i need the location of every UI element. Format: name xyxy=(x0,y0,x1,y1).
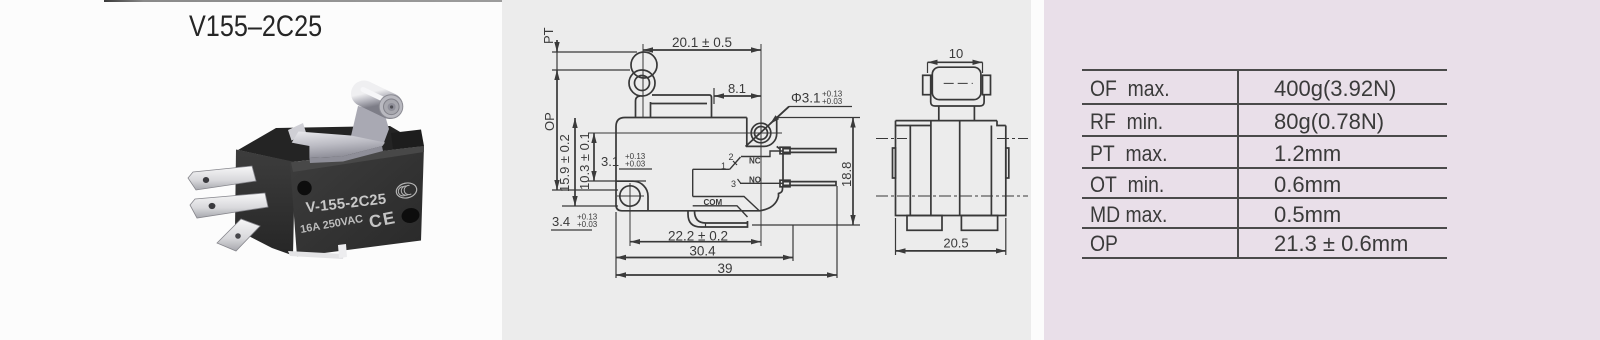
plunger right side xyxy=(650,102,652,117)
front face top chamfer xyxy=(291,146,424,172)
table line 6 xyxy=(1082,227,1447,229)
mounting boss bottom-left xyxy=(616,181,648,211)
svg-text:+0.03: +0.03 xyxy=(625,160,646,169)
contact tick at 2 xyxy=(733,161,737,165)
NO pin base tab xyxy=(780,180,790,187)
table top border xyxy=(1082,69,1447,71)
PT reference line pressed xyxy=(552,69,630,71)
body top rear cap xyxy=(391,130,424,150)
NC terminal pin xyxy=(783,149,836,153)
common left wire vertical xyxy=(692,169,694,196)
side foot left xyxy=(907,216,942,231)
hole top-right xyxy=(751,123,771,143)
terminal blade 3 xyxy=(217,219,260,251)
roller side view xyxy=(932,67,981,99)
svg-text:20.1 ± 0.5: 20.1 ± 0.5 xyxy=(672,35,732,50)
table line 5 xyxy=(1082,197,1447,199)
dimension 10.3±0.1 xyxy=(593,133,595,181)
svg-text:NC: NC xyxy=(749,157,761,166)
svg-text:NO: NO xyxy=(749,176,761,185)
lever bracket U xyxy=(931,95,984,106)
NO contact gap tick xyxy=(738,179,741,183)
NC contact wire xyxy=(741,151,783,157)
dimension 8.1 xyxy=(714,95,761,97)
NO contact wire xyxy=(740,182,783,184)
roller circle operating position xyxy=(629,70,655,96)
side interior line c xyxy=(959,121,961,216)
lever bracket xyxy=(351,106,389,148)
dimension 22.2±0.2 xyxy=(630,241,761,243)
dimension 39 xyxy=(616,274,837,276)
right pink background xyxy=(1044,0,1600,340)
roller highlight xyxy=(363,90,387,102)
roller axle circle xyxy=(635,76,650,91)
svg-text:15.9 ± 0.2: 15.9 ± 0.2 xyxy=(557,134,572,192)
body outline left and bottom xyxy=(616,118,783,211)
hole bottom-left xyxy=(620,186,640,206)
lever top edge xyxy=(652,94,710,96)
roller end pin xyxy=(390,105,393,108)
label phi3.1 xyxy=(791,90,843,107)
PT reference line free xyxy=(552,51,637,53)
svg-text:3: 3 xyxy=(731,179,736,189)
svg-text:2: 2 xyxy=(729,152,734,162)
terminal blade 2 xyxy=(190,193,268,218)
extension line 15.9 bottom xyxy=(562,205,618,207)
COM tab tick xyxy=(705,223,707,227)
top rule line xyxy=(104,0,502,2)
extension line 20.5 right xyxy=(1005,218,1007,255)
lever plate xyxy=(292,132,385,159)
centerline hole top-right horizontal xyxy=(588,132,782,134)
hole top-right inner xyxy=(755,127,768,140)
centerline roller axis xyxy=(642,44,644,117)
side interior line b xyxy=(930,121,932,216)
NO terminal pin xyxy=(783,182,836,186)
svg-text:1: 1 xyxy=(721,161,726,171)
lever hinge tab left xyxy=(288,123,307,141)
COM strip top edge xyxy=(693,197,759,211)
plunger stem left xyxy=(938,106,940,121)
dimension 30.4 xyxy=(616,257,793,259)
row RF xyxy=(1090,109,1163,135)
svg-text:10: 10 xyxy=(949,46,963,61)
extension line 20.5 left xyxy=(895,218,897,255)
roller end ring xyxy=(384,99,400,115)
lever fork plate left xyxy=(923,75,931,94)
svg-text:COM: COM xyxy=(704,198,723,207)
terminal 3 hole xyxy=(235,233,241,239)
body right edge between pins xyxy=(782,154,784,181)
leader arrow phi3.1 xyxy=(746,107,790,147)
COM strip bottom edge xyxy=(693,206,748,217)
mounting plane extension line xyxy=(552,189,618,191)
svg-text:Φ3.1: Φ3.1 xyxy=(791,91,821,106)
extension line 10 left xyxy=(927,62,929,73)
centerline hole bottom-left vertical / extension to 22.2 xyxy=(629,183,631,246)
front face hole lower-right xyxy=(400,206,421,224)
underline of 3.4 xyxy=(551,229,592,231)
roller end hub xyxy=(388,103,396,111)
svg-text:PT: PT xyxy=(541,27,556,44)
dimension 20.5 xyxy=(896,250,1006,252)
lever fork plate right xyxy=(983,75,991,94)
CCC logo xyxy=(395,181,418,200)
plunger stem right xyxy=(973,106,975,121)
step below boss xyxy=(777,146,780,148)
lever right end xyxy=(710,95,712,118)
table line 2 xyxy=(1082,103,1447,105)
front face hole upper-left xyxy=(297,181,311,195)
svg-text:22.2 ± 0.2: 22.2 ± 0.2 xyxy=(668,229,728,244)
dimension 15.9±0.2 xyxy=(574,118,576,206)
row OT xyxy=(1090,172,1164,198)
switch body left face xyxy=(235,150,295,256)
PT dimension line middle segment xyxy=(556,52,558,70)
svg-text:39: 39 xyxy=(717,261,732,276)
side body top edge xyxy=(896,120,998,122)
common input wire xyxy=(693,168,730,170)
svg-text:3.4: 3.4 xyxy=(552,214,570,229)
side ear left xyxy=(893,148,896,178)
svg-text:30.4: 30.4 xyxy=(689,244,716,259)
roller cylinder xyxy=(364,94,390,107)
svg-text:+0.03: +0.03 xyxy=(577,220,598,229)
row OF xyxy=(1090,76,1170,102)
table line 4 xyxy=(1082,167,1447,169)
row OP xyxy=(1090,231,1118,257)
side interior line a xyxy=(909,126,911,216)
NC pin base tab xyxy=(780,147,790,154)
switch body top face xyxy=(238,126,424,162)
svg-text:20.5: 20.5 xyxy=(943,236,968,251)
extension line lever end xyxy=(713,88,715,104)
row MD xyxy=(1090,202,1167,228)
side body left shoulder line xyxy=(896,125,931,127)
extension line 30.4 left xyxy=(615,212,617,278)
switch body front face xyxy=(290,146,424,257)
terminal 1 hole xyxy=(203,177,209,183)
dimension 10 xyxy=(928,61,983,63)
svg-text:+0.03: +0.03 xyxy=(822,97,843,106)
body top extension to 18.8 xyxy=(777,117,860,119)
row PT xyxy=(1090,141,1167,167)
svg-text:8.1: 8.1 xyxy=(728,81,746,96)
label 3.1 tolerance xyxy=(601,152,646,169)
svg-text:18.8: 18.8 xyxy=(839,162,854,187)
lever bottom edge xyxy=(651,103,708,105)
bottom metal tab xyxy=(338,244,347,258)
side foot right xyxy=(961,216,997,231)
terminal blade 1 xyxy=(188,166,256,190)
lever plate front lip xyxy=(309,146,383,163)
table line 3 xyxy=(1082,135,1447,137)
terminal 2 hole xyxy=(209,203,216,209)
COM tab top edge xyxy=(695,211,748,223)
extension line 39 right xyxy=(836,186,838,278)
dimension 20.1±0.5 xyxy=(643,49,761,51)
table column divider xyxy=(1237,69,1239,259)
mounting boss top-right xyxy=(747,118,777,147)
label 3.4 tolerance xyxy=(552,213,598,230)
side body step right xyxy=(997,121,1006,126)
roller circle free position xyxy=(631,52,657,78)
table bottom border xyxy=(1082,257,1447,259)
side body outline xyxy=(896,121,1006,216)
dimension 18.8 xyxy=(852,118,854,226)
PT dimension arrow upper xyxy=(556,40,558,52)
middle gray background xyxy=(502,0,1031,340)
roller centerline dashes xyxy=(944,82,973,84)
bottom metal plate xyxy=(288,251,344,259)
underline of 3.1 xyxy=(619,168,652,170)
leader underline phi3.1 xyxy=(789,106,852,108)
product title xyxy=(189,10,322,44)
OP dimension line xyxy=(556,70,558,190)
mounting plane extension right xyxy=(752,224,860,226)
plunger left side xyxy=(636,96,641,117)
side interior line d xyxy=(990,126,992,216)
centerline hole bottom-left horizontal xyxy=(617,195,644,197)
svg-text:OP: OP xyxy=(542,112,557,131)
side ear right xyxy=(1006,148,1009,178)
extension line 10 right xyxy=(982,62,984,73)
centerline hole top-right / extension to 22.2 xyxy=(760,44,762,246)
extension line 30.4 right xyxy=(792,225,794,261)
side centerline upper xyxy=(876,138,1028,140)
COM terminal folded tab outer xyxy=(688,211,748,227)
extension line NO contact level xyxy=(588,180,646,182)
moving contact blade xyxy=(730,157,741,169)
roller end face xyxy=(379,95,403,119)
side centerline lower xyxy=(876,195,1028,197)
